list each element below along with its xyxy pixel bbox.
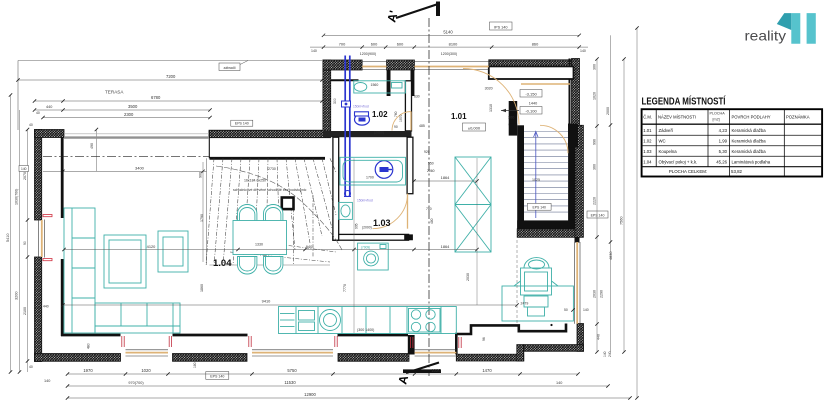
svg-text:1790: 1790 xyxy=(200,214,204,222)
wall bath east xyxy=(407,137,413,194)
wall upper-block west hatch xyxy=(323,60,331,131)
logo bar 2 xyxy=(807,13,816,44)
lounge chair xyxy=(524,258,549,268)
svg-text:1560: 1560 xyxy=(371,83,379,87)
svg-text:6780: 6780 xyxy=(151,95,161,100)
dim bottom row3 xyxy=(68,397,631,399)
label EPS140 bottom xyxy=(206,372,229,380)
lounge chair surround xyxy=(502,286,573,321)
inner face living north xyxy=(210,157,326,160)
red jamb mark 4 xyxy=(334,336,336,347)
svg-text:480: 480 xyxy=(87,343,91,349)
svg-text:240: 240 xyxy=(608,351,612,357)
svg-text:NÁZEV MÍSTNOSTI: NÁZEV MÍSTNOSTI xyxy=(658,115,696,120)
svg-text:40: 40 xyxy=(29,365,33,369)
svg-text:90: 90 xyxy=(394,125,398,129)
svg-text:300: 300 xyxy=(593,64,597,70)
wall left upper hatch xyxy=(35,130,42,221)
level box -3150 xyxy=(520,90,542,98)
riser pipes xyxy=(344,56,346,197)
svg-text:300: 300 xyxy=(333,98,337,104)
wall corner SE vertical hatch xyxy=(577,324,584,352)
dim top sub xyxy=(310,46,588,48)
svg-text:440: 440 xyxy=(46,105,52,109)
dim hall 1864 xyxy=(414,180,477,182)
wall living north hatch xyxy=(209,130,331,138)
jamb living north-west xyxy=(208,131,210,158)
svg-text:Keramická dlažba: Keramická dlažba xyxy=(732,128,767,133)
svg-text:780: 780 xyxy=(426,207,432,211)
dining table xyxy=(233,221,287,255)
svg-text:550: 550 xyxy=(428,162,434,166)
terrace dim 7200 xyxy=(18,79,322,81)
svg-text:1020: 1020 xyxy=(593,92,597,100)
dim bottom row1 xyxy=(68,373,579,375)
svg-text:1.02: 1.02 xyxy=(372,110,388,119)
svg-text:1.02: 1.02 xyxy=(643,139,652,144)
dining chairs xyxy=(238,205,257,222)
door jamb entry-east xyxy=(411,70,415,96)
wall bottom segA hatch xyxy=(35,354,121,362)
terrace dim 6780 xyxy=(35,100,323,102)
svg-text:1970: 1970 xyxy=(399,114,403,122)
svg-text:1020: 1020 xyxy=(431,368,441,373)
wall stairwell east hatch xyxy=(575,125,584,237)
svg-text:1.03: 1.03 xyxy=(373,218,391,228)
hall arrow xyxy=(501,110,519,112)
svg-text:4830: 4830 xyxy=(609,252,613,260)
partition WC/entry xyxy=(405,81,411,131)
dim living 9410 xyxy=(63,304,517,306)
svg-text:Keramická dlažba: Keramická dlažba xyxy=(732,139,767,144)
svg-text:7200: 7200 xyxy=(166,74,176,79)
svg-text:Č.M.: Č.M. xyxy=(643,115,652,120)
svg-text:4,23: 4,23 xyxy=(719,128,728,133)
svg-text:Keramická dlažba: Keramická dlažba xyxy=(732,149,767,154)
svg-text:1200(900): 1200(900) xyxy=(360,52,376,56)
dim left lines xyxy=(10,95,12,372)
toilet WC xyxy=(355,114,370,125)
svg-text:600: 600 xyxy=(397,41,404,46)
svg-text:EPS 140: EPS 140 xyxy=(210,375,224,379)
wall bottom segE step hatch xyxy=(517,345,524,361)
wardrobe entry xyxy=(455,157,491,252)
svg-text:140: 140 xyxy=(44,379,50,383)
svg-text:96: 96 xyxy=(482,337,486,341)
svg-text:IPS 140: IPS 140 xyxy=(494,25,508,29)
inner face bottom-right step xyxy=(456,324,566,355)
wall bath south xyxy=(333,234,409,240)
svg-text:1.04: 1.04 xyxy=(643,160,652,165)
svg-text:1.04: 1.04 xyxy=(213,258,232,269)
svg-text:140: 140 xyxy=(603,351,607,357)
svg-text:996: 996 xyxy=(593,139,597,145)
svg-text:2100: 2100 xyxy=(23,307,27,315)
level box 0 xyxy=(463,123,486,131)
svg-text:Koupelna: Koupelna xyxy=(659,149,678,154)
door jamb block kitchen-west xyxy=(408,335,415,355)
wall bottom segC hatch xyxy=(338,354,409,362)
svg-text:50: 50 xyxy=(564,308,568,312)
stairwell wall east xyxy=(568,124,575,229)
svg-text:Obývací pokoj + k.k.: Obývací pokoj + k.k. xyxy=(659,160,698,165)
section line A-A' xyxy=(428,18,430,376)
wall corner SE horizontal hatch xyxy=(524,345,584,352)
wall bottom segB hatch xyxy=(173,354,248,362)
svg-text:2030: 2030 xyxy=(593,290,597,298)
stairwell door arc xyxy=(540,125,568,153)
red jamb mark left wall a xyxy=(43,215,52,217)
svg-text:LEGENDA MÍSTNOSTÍ: LEGENDA MÍSTNOSTÍ xyxy=(642,95,727,108)
svg-text:EPS 140: EPS 140 xyxy=(533,206,546,210)
svg-text:1860: 1860 xyxy=(200,284,204,292)
svg-text:zábradlí: zábradlí xyxy=(223,66,235,70)
label IPS140 top xyxy=(490,22,513,30)
svg-text:630: 630 xyxy=(414,95,420,99)
svg-text:PLOCHA: PLOCHA xyxy=(710,112,726,116)
svg-text:140: 140 xyxy=(583,308,589,312)
svg-text:(2000): (2000) xyxy=(362,226,372,230)
stove xyxy=(409,309,441,333)
terrace dim 3500 xyxy=(35,109,211,111)
svg-text:-0,100: -0,100 xyxy=(525,108,537,113)
svg-text:440: 440 xyxy=(43,305,49,309)
label EPS140 left xyxy=(231,120,253,126)
wall bath west xyxy=(333,137,339,240)
red jamb mark left wall b xyxy=(43,259,52,261)
svg-text:3400: 3400 xyxy=(135,166,145,171)
glass wall terrace xyxy=(64,136,209,138)
svg-text:920: 920 xyxy=(424,150,430,154)
inner face left wall lower xyxy=(61,259,64,336)
svg-text:9410: 9410 xyxy=(262,299,271,304)
svg-text:1.01: 1.01 xyxy=(451,112,467,121)
svg-text:reality: reality xyxy=(745,28,787,44)
tub faucet symbol xyxy=(375,161,393,179)
stairwell treads xyxy=(524,131,568,133)
svg-text:140: 140 xyxy=(311,49,317,53)
label EPS 140 stairwell xyxy=(527,203,551,210)
inner face bottom seg2 xyxy=(173,334,248,337)
door swing bath xyxy=(373,194,408,229)
wall top seg1 hatch xyxy=(323,60,362,70)
washing machine xyxy=(358,243,389,270)
wall WC south band xyxy=(323,131,412,137)
svg-text:1864: 1864 xyxy=(441,244,450,249)
svg-text:(2060): (2060) xyxy=(374,131,384,135)
door swing entry xyxy=(463,69,519,125)
wall stairwell south hatch xyxy=(517,229,575,238)
svg-text:760: 760 xyxy=(394,111,398,117)
section line horizontal xyxy=(43,156,209,158)
svg-text:5,30: 5,30 xyxy=(719,149,728,154)
svg-text:7770: 7770 xyxy=(343,284,347,292)
svg-text:700: 700 xyxy=(339,41,346,46)
svg-text:POVRCH PODLAHY: POVRCH PODLAHY xyxy=(732,115,771,120)
svg-text:±0,000: ±0,000 xyxy=(468,125,481,130)
svg-text:485: 485 xyxy=(419,124,425,128)
WC basin counter xyxy=(354,81,406,93)
valve bath xyxy=(345,191,351,197)
section marker A' top xyxy=(396,4,438,18)
wall top seg3 hatch xyxy=(489,60,574,67)
wall top seg2 hatch xyxy=(387,60,415,70)
inner face bottom seg1 xyxy=(61,334,121,337)
dim 490 left xyxy=(95,130,97,172)
svg-text:600: 600 xyxy=(371,41,378,46)
svg-text:1310: 1310 xyxy=(489,104,493,112)
level box -0100 xyxy=(520,107,542,115)
window bottom 2 xyxy=(252,352,333,354)
svg-text:1864: 1864 xyxy=(441,175,450,180)
bath basin xyxy=(339,202,353,219)
svg-text:940: 940 xyxy=(306,244,313,249)
svg-text:2070: 2070 xyxy=(23,172,27,180)
svg-text:480: 480 xyxy=(430,218,434,224)
logo flag xyxy=(777,13,792,30)
svg-text:PLOCHA CELKEM:: PLOCHA CELKEM: xyxy=(669,169,707,174)
stairwell notch north-west xyxy=(509,124,518,136)
svg-text:2290: 2290 xyxy=(600,290,604,298)
svg-text:180: 180 xyxy=(193,362,197,368)
svg-text:360: 360 xyxy=(593,164,597,170)
svg-text:schodnicové dřevěné schodiště: schodnicové dřevěné schodiště bez podstu… xyxy=(233,188,307,192)
svg-text:490: 490 xyxy=(90,143,94,149)
wall top-left stub hatch xyxy=(35,130,65,138)
svg-text:140: 140 xyxy=(21,167,27,171)
svg-text:8100: 8100 xyxy=(449,41,458,46)
inner face bottom seg3 xyxy=(338,334,409,337)
svg-text:40: 40 xyxy=(29,123,33,127)
svg-text:300: 300 xyxy=(508,116,514,120)
label EPS140 right xyxy=(587,211,608,218)
svg-text:970(700): 970(700) xyxy=(128,381,144,385)
armchair xyxy=(158,231,188,272)
terrace dim 2300 xyxy=(43,117,210,119)
window left wall xyxy=(41,220,43,257)
closet front tan line xyxy=(521,83,570,85)
svg-text:2000: 2000 xyxy=(606,107,610,115)
svg-text:TERASA: TERASA xyxy=(105,90,124,95)
terrace outline xyxy=(18,60,322,62)
dim bottom row2 xyxy=(68,385,609,387)
svg-text:1,99: 1,99 xyxy=(719,139,728,144)
entry north closet xyxy=(489,66,574,79)
logo bar 1 xyxy=(791,13,800,44)
svg-text:2220: 2220 xyxy=(593,197,597,205)
svg-text:11530: 11530 xyxy=(284,380,296,385)
red jamb mark 3 xyxy=(248,336,250,347)
stairwell wall south xyxy=(517,220,575,228)
svg-text:7560: 7560 xyxy=(620,217,624,225)
red jamb mark 1 xyxy=(121,336,123,347)
thin vline mid xyxy=(353,158,355,333)
window top seg xyxy=(362,66,387,68)
jamb east window top xyxy=(575,237,580,243)
dim right lines xyxy=(596,59,598,352)
svg-text:Zádveří: Zádveří xyxy=(659,128,674,133)
svg-text:1700: 1700 xyxy=(366,176,374,180)
window east wall xyxy=(576,242,578,324)
svg-text:4120: 4120 xyxy=(147,244,156,249)
dim living 4120 row xyxy=(64,249,477,251)
stairwell jamb north-east xyxy=(568,124,578,148)
svg-text:40: 40 xyxy=(36,111,40,115)
svg-text:WC: WC xyxy=(659,139,666,144)
svg-text:45,26: 45,26 xyxy=(716,160,727,165)
label zabradli xyxy=(219,63,240,71)
inner face left wall upper xyxy=(61,138,64,219)
svg-text:2730: 2730 xyxy=(268,167,276,171)
svg-text:2300: 2300 xyxy=(124,112,134,117)
svg-text:900: 900 xyxy=(199,172,203,178)
svg-text:140: 140 xyxy=(580,49,586,53)
valve WC xyxy=(342,101,351,107)
svg-text:150m³/hod: 150m³/hod xyxy=(353,105,369,109)
svg-text:1.03: 1.03 xyxy=(643,149,652,154)
svg-text:1020: 1020 xyxy=(141,368,151,373)
svg-text:1470: 1470 xyxy=(482,368,492,373)
sofa back left xyxy=(64,208,95,333)
coffee table xyxy=(104,235,146,288)
svg-text:-3,150: -3,150 xyxy=(525,91,537,96)
entry glazing xyxy=(414,66,488,68)
svg-text:3200: 3200 xyxy=(15,292,19,300)
svg-text:1440: 1440 xyxy=(529,102,537,106)
svg-text:[m2]: [m2] xyxy=(713,118,720,122)
kitchen counter xyxy=(279,307,457,334)
svg-text:1030(700): 1030(700) xyxy=(15,189,19,205)
svg-text:53,82: 53,82 xyxy=(731,169,743,174)
svg-text:POZNÁMKA: POZNÁMKA xyxy=(786,115,810,120)
svg-text:Laminátová podlaha: Laminátová podlaha xyxy=(732,160,771,165)
chimney square xyxy=(282,198,294,210)
svg-text:16x184.6x250: 16x184.6x250 xyxy=(244,179,266,183)
section marker A bottom xyxy=(406,363,439,374)
svg-text:EPS 140: EPS 140 xyxy=(591,213,605,217)
svg-text:3020: 3020 xyxy=(485,87,493,91)
svg-text:5140: 5140 xyxy=(443,30,453,35)
svg-text:5750: 5750 xyxy=(287,368,297,373)
wall stub hall xyxy=(509,101,518,125)
red jamb mark 2 xyxy=(168,336,170,347)
dim 3400 xyxy=(43,170,207,172)
stair middle xyxy=(206,158,208,265)
svg-text:EPS 140: EPS 140 xyxy=(235,122,249,126)
svg-text:(300 1400): (300 1400) xyxy=(357,328,374,332)
window bottom 1 xyxy=(126,352,169,354)
dim top 5140 xyxy=(324,34,580,36)
door jamb bath south-east L xyxy=(404,226,413,240)
svg-text:1025: 1025 xyxy=(532,178,540,182)
svg-text:440: 440 xyxy=(597,334,601,340)
svg-text:140: 140 xyxy=(556,381,562,385)
svg-text:905: 905 xyxy=(355,223,359,229)
svg-text:2060: 2060 xyxy=(427,169,435,173)
door swing WC xyxy=(392,112,411,131)
sofa bottom run xyxy=(95,303,180,333)
svg-text:150m³/hod: 150m³/hod xyxy=(357,199,373,203)
svg-text:1330: 1330 xyxy=(255,243,263,247)
red jamb mark 5 xyxy=(410,337,412,348)
svg-text:3500: 3500 xyxy=(128,104,138,109)
svg-text:1200(300): 1200(300) xyxy=(441,52,457,56)
svg-text:(7909): (7909) xyxy=(361,245,370,249)
svg-text:12900: 12900 xyxy=(304,392,316,397)
svg-text:5410: 5410 xyxy=(6,234,10,242)
svg-text:860: 860 xyxy=(532,41,539,46)
bathtub xyxy=(340,157,406,185)
svg-text:1.01: 1.01 xyxy=(643,128,652,133)
window kitchen xyxy=(415,352,457,354)
wall left lower hatch xyxy=(35,257,42,362)
door jamb entry-west xyxy=(387,70,391,96)
stair dim 900 xyxy=(202,162,204,262)
svg-text:1970: 1970 xyxy=(83,368,93,373)
stairwell walk line xyxy=(535,133,537,218)
wall bottom segD hatch xyxy=(456,354,523,361)
svg-text:2030: 2030 xyxy=(466,273,470,281)
red jamb mark 6 xyxy=(458,337,460,348)
wall east upper hatch xyxy=(572,59,580,127)
svg-text:2479: 2479 xyxy=(521,302,529,306)
wall WC north inner xyxy=(331,79,359,81)
stairwell wall west xyxy=(517,125,524,229)
dot xyxy=(550,324,552,326)
svg-text:90: 90 xyxy=(23,241,27,245)
